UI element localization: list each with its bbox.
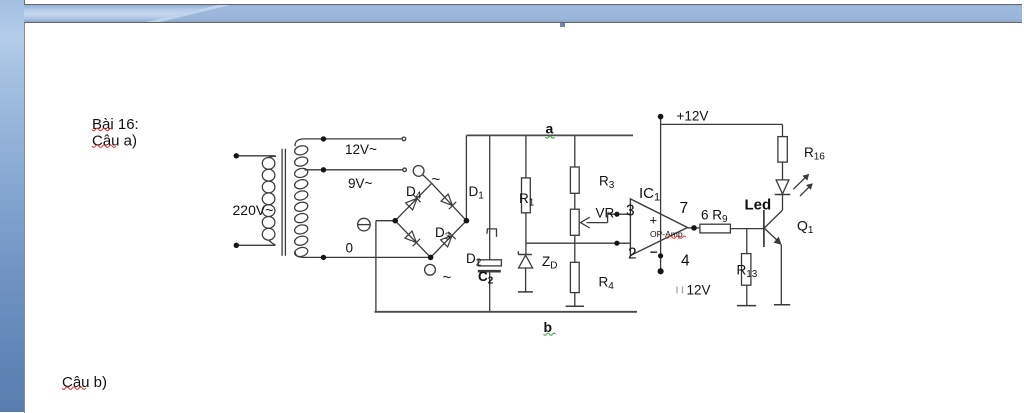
svg-text:b: b <box>544 319 553 335</box>
svg-text:D2: D2 <box>466 251 482 269</box>
svg-text:D4: D4 <box>406 184 422 202</box>
svg-text:D1: D1 <box>469 184 485 202</box>
svg-text:R16: R16 <box>804 145 825 163</box>
svg-text:4: 4 <box>681 253 690 270</box>
svg-text:~: ~ <box>443 269 452 286</box>
svg-text:ZD: ZD <box>542 254 557 272</box>
svg-text:VR: VR <box>596 206 615 221</box>
svg-text:OP-Amp: OP-Amp <box>650 229 683 239</box>
svg-text:R13: R13 <box>737 263 758 281</box>
svg-text:Led: Led <box>745 197 772 214</box>
svg-text:R4: R4 <box>599 275 615 293</box>
svg-text:7: 7 <box>680 200 689 217</box>
svg-text:3: 3 <box>626 203 635 220</box>
svg-text:a: a <box>546 121 554 137</box>
svg-text:R3: R3 <box>599 174 615 192</box>
svg-text:12V~: 12V~ <box>345 142 377 157</box>
svg-text:+12V: +12V <box>677 109 709 124</box>
svg-text:Q1: Q1 <box>797 218 814 237</box>
svg-text:+: + <box>650 213 658 228</box>
svg-text:2: 2 <box>628 246 637 263</box>
svg-text:6 R9: 6 R9 <box>701 208 728 226</box>
svg-text:~: ~ <box>432 171 441 188</box>
svg-text:D3: D3 <box>435 225 451 243</box>
svg-text:IC1: IC1 <box>639 185 660 204</box>
svg-text:R1: R1 <box>519 191 535 209</box>
svg-text:0: 0 <box>346 241 354 256</box>
svg-text:220V~: 220V~ <box>233 202 274 218</box>
svg-text:9V~: 9V~ <box>348 176 373 191</box>
svg-text:12V: 12V <box>687 283 711 298</box>
